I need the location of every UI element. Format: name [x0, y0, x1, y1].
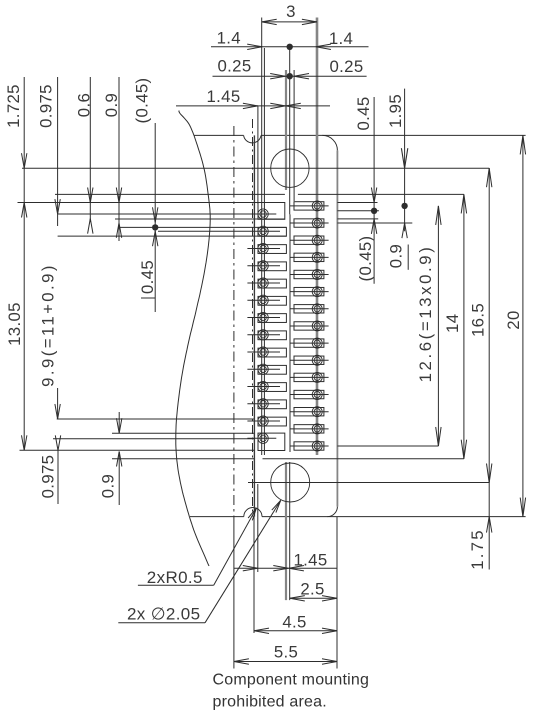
- svg-text:0.6: 0.6: [75, 93, 94, 117]
- svg-text:5.5: 5.5: [274, 643, 298, 662]
- svg-text:0.45: 0.45: [354, 96, 373, 130]
- svg-text:14: 14: [443, 314, 462, 333]
- svg-text:2xR0.5: 2xR0.5: [147, 568, 203, 587]
- svg-text:4.5: 4.5: [282, 613, 306, 632]
- svg-text:20: 20: [504, 310, 523, 329]
- svg-text:13.05: 13.05: [5, 302, 24, 346]
- svg-text:3: 3: [286, 2, 296, 21]
- svg-text:(0.45): (0.45): [133, 78, 152, 124]
- svg-text:9.9(=11+0.9): 9.9(=11+0.9): [39, 263, 58, 387]
- svg-text:0.25: 0.25: [329, 57, 363, 76]
- svg-text:0.9: 0.9: [387, 244, 406, 268]
- svg-text:Component mounting: Component mounting: [213, 671, 370, 688]
- svg-text:0.975: 0.975: [37, 84, 56, 128]
- svg-text:1.4: 1.4: [217, 29, 241, 48]
- svg-text:prohibited area.: prohibited area.: [213, 694, 327, 711]
- svg-text:12.6(=13x0.9): 12.6(=13x0.9): [416, 245, 435, 383]
- svg-text:1.4: 1.4: [329, 29, 353, 48]
- svg-text:2.5: 2.5: [300, 580, 324, 599]
- svg-text:16.5: 16.5: [469, 303, 488, 337]
- svg-text:1.75: 1.75: [468, 528, 487, 569]
- svg-text:0.9: 0.9: [102, 93, 121, 117]
- svg-text:(0.45): (0.45): [356, 236, 375, 282]
- svg-text:2x ∅2.05: 2x ∅2.05: [127, 605, 200, 624]
- svg-text:0.25: 0.25: [217, 57, 251, 76]
- svg-text:0.9: 0.9: [99, 474, 118, 498]
- svg-text:1.725: 1.725: [4, 84, 23, 128]
- svg-text:0.975: 0.975: [38, 455, 57, 499]
- svg-text:1.45: 1.45: [293, 551, 327, 570]
- svg-text:0.45: 0.45: [138, 260, 157, 294]
- svg-text:1.95: 1.95: [386, 94, 405, 128]
- svg-text:1.45: 1.45: [206, 87, 240, 106]
